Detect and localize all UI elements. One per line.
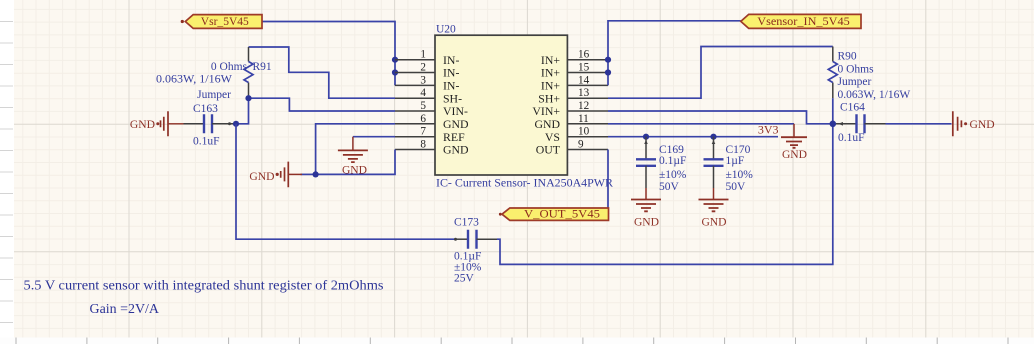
capacitor C170: [704, 137, 754, 194]
svg-text:7: 7: [420, 126, 426, 138]
wire C173 right to VIN+ node: [497, 124, 833, 265]
wire C164 to right GND: [886, 123, 952, 125]
svg-text:5.5 V current sensor with inte: 5.5 V current sensor with integrated shu…: [24, 279, 384, 294]
wire pin11 GND rail: [608, 123, 794, 125]
node pin6/pin8 GND junction: [313, 171, 319, 177]
svg-text:8: 8: [420, 139, 426, 151]
svg-text:0.1µF: 0.1µF: [454, 250, 481, 262]
svg-text:U20: U20: [436, 24, 456, 36]
wire VS pin10 rail: [608, 136, 778, 138]
svg-text:V_OUT_5V45: V_OUT_5V45: [524, 206, 600, 220]
svg-text:1: 1: [420, 49, 426, 61]
wire pin8 GND to lower junction: [316, 150, 395, 175]
svg-text:6: 6: [420, 113, 426, 125]
node C169 junction: [643, 134, 649, 140]
svg-text:0.1uF: 0.1uF: [193, 136, 220, 148]
node pin1/IN- junction: [392, 57, 398, 63]
svg-text:0.063W, 1/16W: 0.063W, 1/16W: [838, 89, 911, 101]
svg-text:GND: GND: [534, 117, 560, 131]
wire GND symbol link: [301, 173, 316, 175]
capacitor C173: [454, 217, 498, 285]
bottom ruler strip: [0, 338, 1034, 344]
wire R90 bottom to VIN+ node: [832, 98, 834, 124]
svg-text:C163: C163: [193, 103, 218, 115]
wire pins 14-16 riser to Vsensor_IN_5V45: [608, 21, 741, 86]
IC U20 pin names right: [532, 53, 560, 157]
ground GND for pins 6 and 8: [249, 162, 302, 188]
capacitor C164: [836, 102, 886, 144]
capacitor C163: [184, 103, 237, 148]
resistor R91: [156, 47, 272, 101]
svg-text:4: 4: [420, 87, 426, 99]
svg-text:±10%: ±10%: [659, 169, 687, 181]
svg-text:R91: R91: [253, 61, 272, 73]
svg-text:GND: GND: [634, 215, 659, 228]
svg-text:C164: C164: [840, 102, 865, 114]
IC U20 pin numbers left 1-8: [420, 49, 426, 151]
port V_OUT_5V45: [499, 206, 609, 220]
svg-text:0.063W, 1/16W: 0.063W, 1/16W: [156, 74, 232, 86]
IC U20 pin numbers right 16-9: [578, 49, 590, 151]
wire VIN+ pin12 to node: [608, 111, 833, 124]
svg-text:GND: GND: [443, 117, 469, 131]
svg-text:IN-: IN-: [443, 66, 459, 80]
node R91/C163/VIN- junction: [245, 95, 251, 101]
svg-text:GND: GND: [130, 118, 155, 131]
node pin15 junction: [605, 69, 611, 75]
wire bottom rail from C163 node down to C173: [236, 124, 454, 239]
IC U20 pin stubs right: [567, 60, 608, 150]
node pin2/IN- junction: [392, 69, 398, 75]
svg-text:2: 2: [420, 62, 426, 74]
IC U20 body: [435, 24, 613, 190]
svg-text:C169: C169: [659, 144, 684, 156]
svg-text:3: 3: [420, 74, 426, 86]
wire OUT pin9 down to port: [607, 150, 609, 215]
svg-text:±10%: ±10%: [726, 169, 754, 181]
svg-text:14: 14: [578, 74, 590, 86]
node C163/bottom-rail junction: [233, 121, 239, 127]
svg-text:R90: R90: [838, 50, 857, 62]
svg-text:GND: GND: [701, 215, 726, 228]
ground GND under C170: [699, 188, 729, 228]
svg-text:Gain =2V/A: Gain =2V/A: [90, 302, 160, 317]
svg-text:50V: 50V: [659, 181, 680, 193]
wire R91 bottom to C163 node: [236, 98, 249, 124]
svg-text:Vsr_5V45: Vsr_5V45: [201, 14, 249, 28]
svg-text:C170: C170: [726, 144, 751, 156]
node C170 junction: [710, 134, 716, 140]
svg-text:C173: C173: [454, 217, 479, 229]
ground GND left of C163: [130, 111, 184, 136]
svg-text:5: 5: [420, 100, 426, 112]
ground GND on pin11: [781, 124, 807, 161]
svg-text:Jumper: Jumper: [197, 89, 231, 101]
svg-text:16: 16: [578, 49, 590, 61]
svg-text:9: 9: [578, 139, 584, 151]
svg-text:25V: 25V: [454, 272, 475, 284]
wire VIN- from R91 bottom to pin 5: [249, 98, 396, 111]
svg-text:0 Ohms: 0 Ohms: [211, 61, 248, 73]
svg-text:11: 11: [578, 113, 589, 125]
svg-text:10: 10: [578, 126, 590, 138]
svg-text:Jumper: Jumper: [838, 76, 872, 88]
svg-text:15: 15: [578, 62, 590, 74]
capacitor C169: [636, 137, 687, 194]
svg-text:GND: GND: [970, 118, 995, 131]
left ruler strip: [0, 0, 14, 344]
IC U20 pin stubs left: [395, 60, 435, 150]
wire SH- staircase from R91 top to pin 4: [249, 47, 396, 98]
svg-text:IN+: IN+: [541, 66, 560, 80]
svg-text:Vsensor_IN_5V45: Vsensor_IN_5V45: [757, 14, 850, 28]
svg-text:GND: GND: [782, 148, 807, 161]
svg-text:1µF: 1µF: [726, 155, 745, 167]
ground GND right of C164: [953, 111, 995, 136]
wire pin6 GND to lower junction: [316, 124, 395, 175]
svg-text:0.1uF: 0.1uF: [838, 132, 865, 144]
ground GND on REF: [338, 137, 368, 177]
svg-text:50V: 50V: [726, 181, 747, 193]
IC U20 pin names left: [443, 53, 469, 157]
svg-text:12: 12: [578, 100, 589, 112]
svg-text:IC- Current Sensor- INA250A4PW: IC- Current Sensor- INA250A4PWR: [436, 175, 613, 189]
svg-text:OUT: OUT: [536, 143, 561, 157]
port Vsr_5V45: [181, 14, 262, 29]
svg-text:13: 13: [578, 87, 590, 99]
svg-text:0.1µF: 0.1µF: [659, 155, 686, 167]
wire Vsr_5V45 to pins 1-3 riser: [262, 22, 395, 86]
port Vsensor_IN_5V45: [741, 14, 861, 29]
node pin16 junction: [605, 57, 611, 63]
ground GND under C169: [631, 188, 661, 228]
svg-text:GND: GND: [342, 164, 367, 177]
svg-text:GND: GND: [249, 170, 274, 183]
svg-text:GND: GND: [443, 143, 469, 157]
resistor R90: [828, 47, 910, 102]
wire REF pin7 to ground: [353, 136, 395, 138]
svg-text:0 Ohms: 0 Ohms: [838, 63, 875, 75]
node R90/C164/VIN+ junction: [830, 121, 837, 128]
wire SH+ pin13 to R90 top: [608, 47, 833, 99]
